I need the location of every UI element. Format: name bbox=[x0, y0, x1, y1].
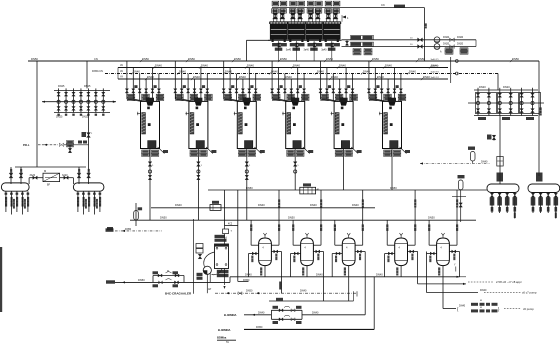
svg-text:DN50: DN50 bbox=[142, 57, 149, 61]
svg-text:DN50: DN50 bbox=[256, 326, 263, 329]
svg-text:CN: CN bbox=[94, 57, 98, 61]
svg-text:DN40: DN40 bbox=[352, 203, 359, 207]
svg-text:DN40: DN40 bbox=[310, 203, 317, 207]
svg-text:DN40: DN40 bbox=[409, 70, 416, 74]
svg-text:DN40: DN40 bbox=[293, 64, 300, 68]
svg-text:DN40: DN40 bbox=[239, 75, 246, 79]
svg-text:B-4DMNA: B-4DMNA bbox=[224, 313, 236, 317]
svg-text:M: M bbox=[167, 271, 169, 273]
svg-text:DN50: DN50 bbox=[160, 216, 167, 220]
svg-text:3a40 Y1: 3a40 Y1 bbox=[431, 59, 440, 61]
svg-text:3a40: 3a40 bbox=[286, 49, 292, 52]
svg-text:DN25: DN25 bbox=[84, 85, 91, 88]
svg-text:DN50: DN50 bbox=[246, 290, 253, 293]
svg-text:DN40: DN40 bbox=[431, 64, 438, 68]
svg-text:DN40: DN40 bbox=[300, 290, 307, 293]
svg-text:DN40: DN40 bbox=[179, 70, 186, 74]
svg-text:DN50: DN50 bbox=[288, 216, 295, 220]
svg-text:DN50: DN50 bbox=[138, 278, 145, 282]
svg-text:DN25: DN25 bbox=[58, 85, 65, 88]
svg-text:DN50: DN50 bbox=[428, 216, 435, 220]
svg-text:DN50: DN50 bbox=[280, 57, 287, 61]
svg-text:c6 c7 pump: c6 c7 pump bbox=[522, 291, 537, 295]
svg-text:DN40: DN40 bbox=[147, 75, 154, 79]
svg-text:DN20: DN20 bbox=[457, 43, 464, 46]
svg-text:3a40: 3a40 bbox=[321, 49, 327, 52]
svg-text:DN40: DN40 bbox=[480, 289, 487, 292]
svg-text:DN40: DN40 bbox=[225, 70, 232, 74]
svg-text:4C2: 4C2 bbox=[228, 224, 233, 226]
svg-text:DN50: DN50 bbox=[512, 57, 519, 61]
svg-text:DN50: DN50 bbox=[246, 186, 253, 190]
svg-text:DN40: DN40 bbox=[258, 311, 265, 314]
svg-text:AP: AP bbox=[208, 288, 212, 291]
svg-text:DN40: DN40 bbox=[258, 203, 265, 207]
svg-text:B-4DMNA: B-4DMNA bbox=[218, 328, 230, 332]
svg-text:DN40: DN40 bbox=[247, 64, 254, 68]
svg-text:DN25: DN25 bbox=[82, 116, 89, 119]
svg-text:B4C-CRAGAALER: B4C-CRAGAALER bbox=[165, 292, 192, 296]
svg-text:DN40: DN40 bbox=[423, 75, 430, 79]
svg-text:3A20: 3A20 bbox=[62, 174, 68, 177]
svg-text:3A20: 3A20 bbox=[30, 174, 36, 177]
svg-text:DN40: DN40 bbox=[385, 64, 392, 68]
svg-text:DN50: DN50 bbox=[188, 57, 195, 61]
svg-text:DN50: DN50 bbox=[326, 57, 333, 61]
svg-text:DN40: DN40 bbox=[331, 75, 338, 79]
svg-text:DN20: DN20 bbox=[443, 43, 450, 46]
svg-text:M: M bbox=[480, 307, 482, 309]
svg-text:DN20: DN20 bbox=[479, 85, 486, 89]
svg-text:DN40: DN40 bbox=[377, 75, 384, 79]
svg-text:DN20: DN20 bbox=[443, 36, 450, 39]
svg-text:YA: YA bbox=[120, 76, 123, 79]
svg-text:DN50: DN50 bbox=[125, 228, 132, 231]
svg-text:P#LL: P#LL bbox=[23, 143, 30, 147]
svg-text:3a40: 3a40 bbox=[304, 49, 310, 52]
svg-text:VA: VA bbox=[120, 64, 123, 67]
svg-text:DN40: DN40 bbox=[312, 311, 319, 314]
svg-text:DN40: DN40 bbox=[285, 75, 292, 79]
svg-text:CN: CN bbox=[381, 4, 385, 7]
svg-text:DN25: DN25 bbox=[56, 116, 63, 119]
svg-text:DN50: DN50 bbox=[234, 57, 241, 61]
svg-text:VA: VA bbox=[120, 70, 123, 73]
svg-text:DN50: DN50 bbox=[31, 57, 38, 61]
svg-text:3a40 Y4: 3a40 Y4 bbox=[431, 77, 440, 79]
svg-text:M: M bbox=[480, 300, 482, 302]
svg-text:2.5% c6 - c7 c8 appr: 2.5% c6 - c7 c8 appr bbox=[496, 280, 522, 284]
svg-text:DN40: DN40 bbox=[376, 272, 383, 276]
svg-text:BF: BF bbox=[47, 184, 51, 187]
svg-text:DN40: DN40 bbox=[175, 203, 182, 207]
svg-text:DN40: DN40 bbox=[201, 64, 208, 68]
svg-text:DN50: DN50 bbox=[372, 57, 379, 61]
svg-text:DN40: DN40 bbox=[316, 272, 323, 276]
svg-text:DN50: DN50 bbox=[390, 186, 397, 190]
svg-text:DN20: DN20 bbox=[503, 85, 510, 89]
svg-text:DN40: DN40 bbox=[133, 70, 140, 74]
svg-text:DN40: DN40 bbox=[193, 75, 200, 79]
svg-text:BDMba: BDMba bbox=[217, 336, 227, 340]
svg-text:DN40: DN40 bbox=[459, 305, 466, 308]
svg-text:DN40: DN40 bbox=[481, 161, 488, 164]
svg-text:M: M bbox=[44, 169, 46, 173]
svg-text:DN20: DN20 bbox=[457, 36, 464, 39]
svg-text:DN40: DN40 bbox=[155, 64, 162, 68]
svg-text:DN40: DN40 bbox=[339, 64, 346, 68]
svg-text:DN50-CN: DN50-CN bbox=[92, 70, 103, 73]
svg-text:c6 pump: c6 pump bbox=[523, 307, 534, 311]
svg-text:3a40 Y3: 3a40 Y3 bbox=[431, 71, 440, 73]
